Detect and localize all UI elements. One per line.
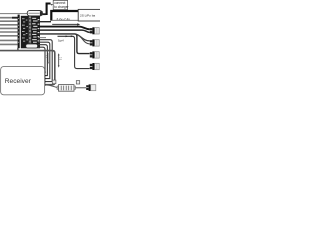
fan wire f2 to receiver pad2 [38,45,47,76]
wire to connector J4 [58,36,90,68]
wire: ribbon lead 1 dark segment [12,17,19,19]
wire: ribbon lead 5 [0,31,18,33]
wire stub from ESC to battery lead junction [38,21,51,23]
connector capsule at block bottom [26,44,38,48]
ferrite bead square 2 [76,81,79,84]
arrowhead on J4 wire [71,35,74,37]
ESC board main block U1 [21,16,40,49]
thick wire to connector J1 pin1 [38,27,90,30]
signal arrowhead annotation [66,35,68,37]
arrow annotation under voltage label [52,23,78,25]
connector J2 [90,39,99,46]
wire B battery lead [51,11,78,21]
wire thin from B to connector J3 [52,19,78,21]
battery box 2S LiPo [78,9,101,21]
svg-text:3.2v~7.4v: 3.2v~7.4v [56,17,70,21]
connector J1 [90,27,99,34]
wire to connector J1 pin2 [38,30,90,32]
svg-text:to charger: to charger [54,5,69,9]
gray stub wire [38,37,46,39]
svg-text:Receiver: Receiver [5,78,32,85]
loop wire tick to block [17,48,19,51]
wire A from capsule to charge lead [43,13,46,15]
ferrite bead square 1 [52,80,56,84]
charger connector capsule [27,11,42,16]
fan wire f4 to receiver pad4 [38,40,52,82]
background [0,0,100,100]
fan wire f1 to receiver pad1 [38,47,45,72]
connector J3 [90,51,99,58]
wire: ribbon lead 6 [0,35,18,37]
label arrow to charge lead [51,4,53,6]
wire: ribbon lead 3 [0,24,18,26]
wire: ribbon lead 2 [0,20,18,22]
wire: ribbon lead 4 [0,27,18,29]
wire to connector J3 [38,34,90,54]
svg-text:2S LiPo ba: 2S LiPo ba [80,14,95,18]
wire fork to connector J2 pin1 [75,34,90,41]
wire: ribbon lead 8 [0,43,18,45]
bottom right connector J5 [86,84,96,91]
svg-text:Sgn4: Sgn4 [58,39,64,42]
down arrow annotation 3.5 [47,53,49,63]
wire to right bottom connector [76,87,87,89]
wire: ribbon lead 7 [0,39,18,41]
ESC board left pin strip [18,15,20,49]
down arrow annotation 5.1 [58,55,60,66]
label box: connect to charger [53,0,67,9]
receiver box [1,67,45,95]
bottom inline connector [57,85,76,92]
wire from receiver pad to bottom connector [45,85,58,88]
receiver pads [42,71,45,85]
connector J4 [90,63,99,70]
wire fork to connector J2 pin2 [78,35,90,44]
wire: thin lead to charger capsule [0,13,28,15]
long loop wire to receiver pad5 [0,51,55,85]
wire: ribbon lead 1 outer segment [0,17,12,19]
fan wire f3 to receiver pad3 [38,42,50,78]
